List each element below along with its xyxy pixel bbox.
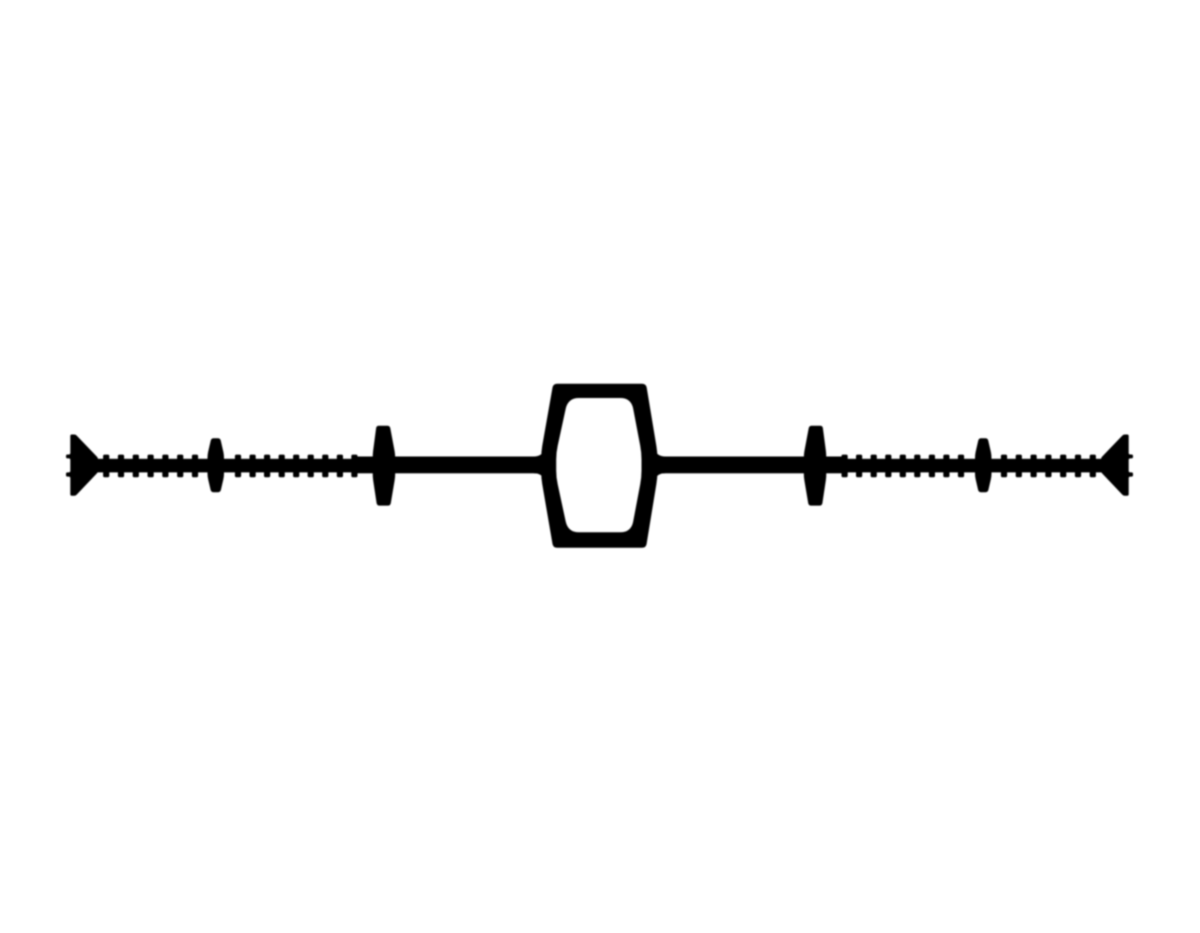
- right half (mirror): [650, 426, 1134, 506]
- center bulb outer: [541, 384, 657, 548]
- left ribs group B: [235, 455, 241, 478]
- left large anchor flange: [373, 426, 396, 506]
- left ribs group A: [103, 455, 109, 478]
- left end bulb (arrowhead with stubs): [66, 435, 98, 496]
- web-to-bulb fillet top: [534, 450, 548, 458]
- left ribbed web: [96, 459, 362, 473]
- left plain web: [356, 457, 550, 474]
- web-to-bulb fillet bottom: [534, 472, 548, 480]
- left small anchor rib: [208, 438, 225, 492]
- center bulb hollow core: [556, 398, 641, 532]
